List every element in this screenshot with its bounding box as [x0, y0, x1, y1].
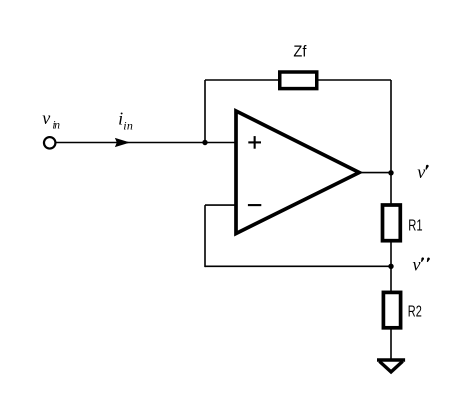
wire R2 to ground: [390, 328, 392, 359]
input terminal circle: [44, 137, 56, 149]
svg-text:in: in: [123, 119, 133, 133]
wire feedback vertical left lower: [204, 205, 206, 267]
wire feedback bottom: [205, 265, 391, 267]
wire feedback vertical left: [204, 80, 206, 143]
wire between R1 and R2: [390, 241, 392, 292]
wire feedback top: [205, 79, 391, 81]
wire output: [358, 172, 391, 174]
label v'': [413, 255, 421, 275]
op-amp plus input sign: [248, 136, 261, 149]
junction node v': [388, 170, 393, 175]
resistor R2: [383, 292, 400, 327]
label v': [417, 162, 425, 182]
label v_in: [42, 108, 60, 132]
current arrow i_in: [115, 138, 130, 147]
resistor Zf: [280, 72, 317, 89]
svg-text:R2: R2: [408, 303, 422, 320]
junction node v'': [388, 264, 393, 269]
svg-text:R1: R1: [408, 217, 422, 234]
prime marks of v'': [420, 257, 430, 262]
label i_in: [118, 108, 133, 132]
junction node input: [202, 140, 207, 145]
wire right rail top: [390, 80, 392, 204]
resistor R1: [383, 205, 401, 241]
svg-text:v: v: [417, 162, 425, 182]
svg-text:in: in: [52, 120, 60, 132]
prime mark of v': [425, 164, 429, 170]
ground symbol: [377, 360, 405, 372]
svg-text:Zf: Zf: [293, 43, 307, 60]
op-amp U1: [236, 111, 359, 234]
svg-text:v: v: [42, 108, 50, 128]
wire input horizontal: [56, 142, 236, 144]
svg-text:v: v: [413, 255, 421, 275]
op-amp minus input sign: [248, 204, 261, 206]
wire minus input stub: [205, 204, 236, 206]
